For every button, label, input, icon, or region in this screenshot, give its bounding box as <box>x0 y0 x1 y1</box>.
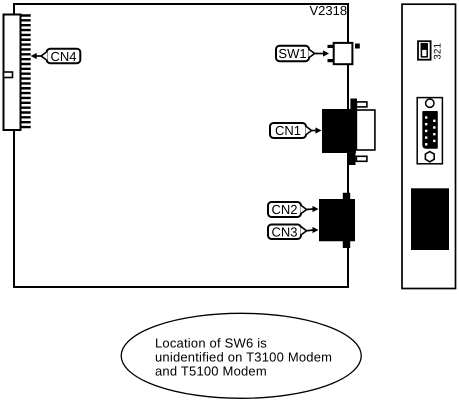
svg-text:V2318: V2318 <box>310 3 348 18</box>
label CN2 <box>268 202 319 217</box>
svg-text:CN3: CN3 <box>271 225 297 240</box>
svg-text:unidentified on T3100 Modem: unidentified on T3100 Modem <box>155 350 332 365</box>
svg-text:CN1: CN1 <box>275 123 301 138</box>
bracket black cutout <box>411 188 449 250</box>
label SW1 <box>276 46 329 61</box>
svg-text:Location of SW6 is: Location of SW6 is <box>155 336 267 351</box>
bracket DB9 connector <box>417 98 442 164</box>
mounting bracket <box>402 4 456 288</box>
svg-text:321: 321 <box>433 43 444 60</box>
bracket slide switch <box>418 41 431 60</box>
card edge connector CN4 <box>4 14 31 130</box>
board outline <box>14 4 348 287</box>
callout ellipse <box>121 313 361 398</box>
label CN1 <box>270 123 322 138</box>
svg-text:CN2: CN2 <box>271 202 297 217</box>
svg-text:and T5100 Modem: and T5100 Modem <box>155 364 267 379</box>
label CN3 <box>268 225 319 240</box>
switch SW1 <box>328 43 360 64</box>
label CN4 <box>31 49 81 64</box>
svg-text:SW1: SW1 <box>278 46 306 61</box>
connector CN2/CN3 <box>319 193 355 248</box>
connector CN1 <box>322 99 375 166</box>
svg-text:CN4: CN4 <box>50 49 76 64</box>
callout text <box>155 336 332 379</box>
